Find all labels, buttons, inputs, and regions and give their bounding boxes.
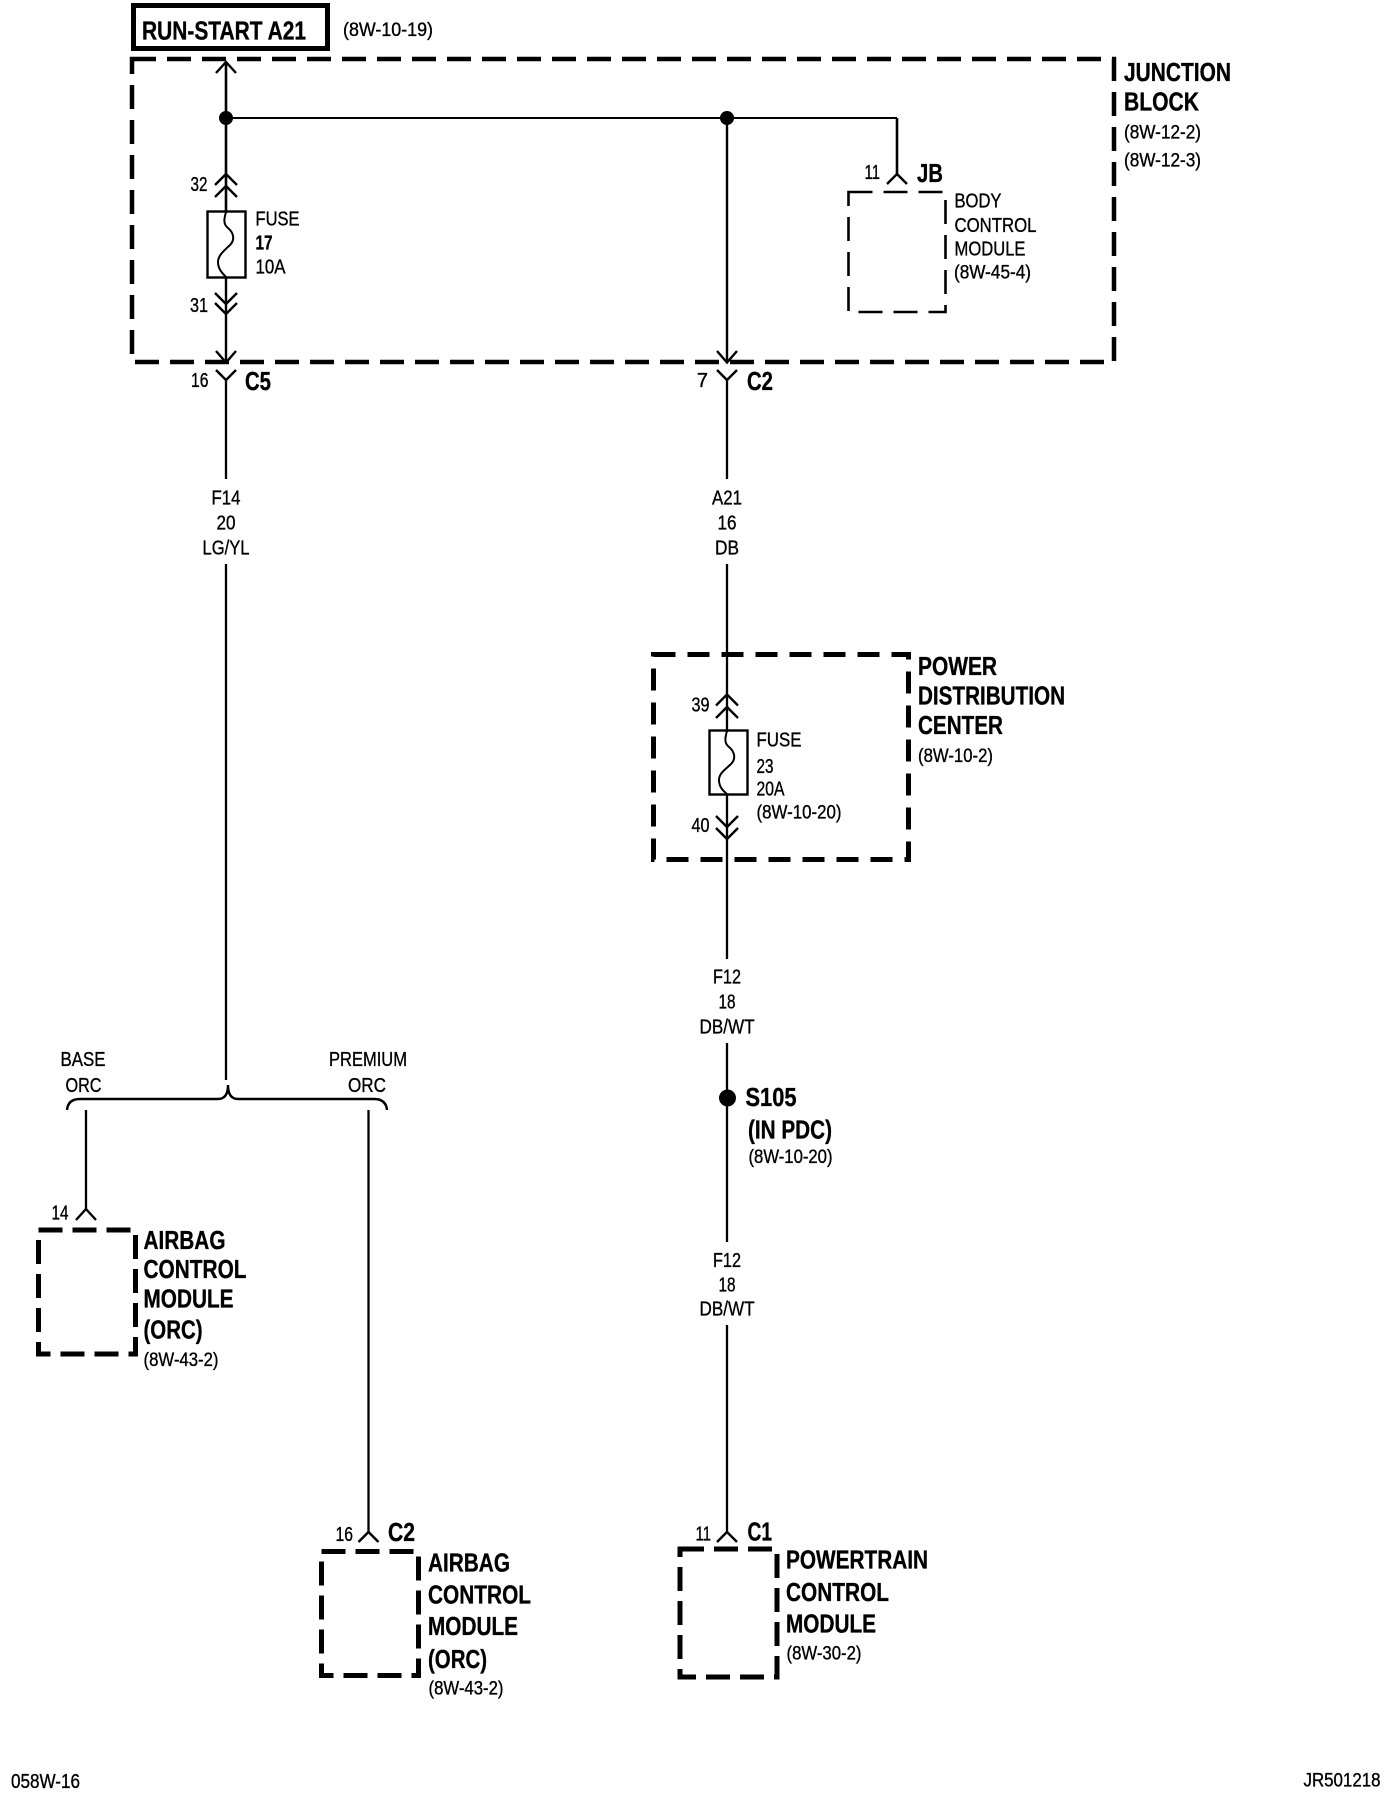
svg-text:JUNCTION: JUNCTION <box>1124 57 1231 87</box>
junction block label <box>1124 57 1231 172</box>
svg-text:F12: F12 <box>713 1250 741 1272</box>
powertrain control module dashed box <box>680 1549 777 1677</box>
svg-text:BODY: BODY <box>955 191 1002 213</box>
fuse 17 value labels <box>256 209 300 279</box>
wire label A21 16 DB <box>712 488 742 560</box>
ORC split brace <box>67 1085 387 1110</box>
connector C2 pin 16 (premium ORC) <box>336 1517 416 1547</box>
wire: fuse to junction block edge with arrow down <box>216 277 236 363</box>
svg-text:ORC: ORC <box>66 1075 102 1097</box>
wire label F12 18 DB/WT (lower) <box>700 1250 755 1321</box>
svg-text:32: 32 <box>191 174 208 196</box>
wire: S105 to label F12 <box>726 1104 728 1242</box>
svg-text:JR501218: JR501218 <box>1304 1771 1381 1792</box>
svg-text:20: 20 <box>217 513 236 535</box>
svg-text:058W-16: 058W-16 <box>11 1771 80 1793</box>
fuse 23 (PDC) <box>710 731 748 795</box>
wire: base ORC branch <box>85 1110 87 1209</box>
svg-text:(8W-30-2): (8W-30-2) <box>787 1644 862 1665</box>
svg-text:FUSE: FUSE <box>757 730 802 752</box>
body control module label <box>954 191 1037 284</box>
svg-text:AIRBAG: AIRBAG <box>428 1548 510 1578</box>
svg-text:C1: C1 <box>748 1517 773 1547</box>
svg-text:MODULE: MODULE <box>786 1609 876 1639</box>
wire: junction block drop to C2 with arrow down <box>717 118 737 363</box>
wire: C5 to label F14 <box>225 380 227 479</box>
body control module dashed box <box>849 192 946 312</box>
svg-text:(8W-45-4): (8W-45-4) <box>954 263 1031 284</box>
svg-text:11: 11 <box>865 162 881 184</box>
wire: F14 label to ORC split brace <box>225 564 227 1080</box>
svg-text:ORC: ORC <box>348 1075 386 1097</box>
svg-text:DB/WT: DB/WT <box>700 1017 755 1039</box>
svg-text:C5: C5 <box>245 366 271 396</box>
label BASE ORC <box>61 1049 106 1097</box>
label PREMIUM ORC <box>329 1049 407 1097</box>
svg-text:CONTROL: CONTROL <box>955 215 1037 237</box>
svg-text:16: 16 <box>718 513 737 535</box>
connector C5 pin 16 <box>191 366 271 396</box>
svg-text:FUSE: FUSE <box>256 209 300 231</box>
svg-text:(8W-43-2): (8W-43-2) <box>144 1350 219 1371</box>
wire label F12 18 DB/WT <box>700 967 755 1039</box>
svg-text:(8W-10-19): (8W-10-19) <box>343 20 433 41</box>
svg-text:A21: A21 <box>712 488 742 510</box>
svg-text:39: 39 <box>692 695 710 717</box>
wire: premium ORC branch <box>367 1110 369 1532</box>
svg-text:(8W-10-2): (8W-10-2) <box>918 746 993 767</box>
svg-text:DISTRIBUTION: DISTRIBUTION <box>918 681 1065 711</box>
svg-text:16: 16 <box>191 370 209 392</box>
fuse 17 (junction block) <box>208 212 246 278</box>
svg-text:C2: C2 <box>747 366 773 396</box>
wire: C2 to label A21 <box>726 380 728 479</box>
airbag control module (base) label <box>144 1225 247 1371</box>
power distribution center label <box>918 651 1065 767</box>
wire label F14 20 LG/YL <box>203 488 250 560</box>
connector pin 14 (base ORC) <box>52 1203 97 1225</box>
wire: label to connector C1 <box>726 1325 728 1532</box>
svg-text:40: 40 <box>692 815 710 837</box>
pin 31 chevrons <box>190 293 237 317</box>
node: bus junction dot at run-start feed <box>219 111 233 125</box>
wire: A21 label to fuse 23 <box>726 564 728 730</box>
svg-text:BLOCK: BLOCK <box>1124 87 1199 117</box>
connector C1 pin 11 <box>696 1517 773 1547</box>
svg-text:CONTROL: CONTROL <box>144 1254 247 1284</box>
wire: horizontal bus inside junction block <box>226 117 897 119</box>
connector C2 pin 7 <box>697 366 773 396</box>
svg-text:POWERTRAIN: POWERTRAIN <box>786 1545 928 1575</box>
svg-text:MODULE: MODULE <box>144 1284 234 1314</box>
svg-text:31: 31 <box>190 295 208 317</box>
svg-text:PREMIUM: PREMIUM <box>329 1049 407 1071</box>
svg-text:23: 23 <box>757 756 774 778</box>
wire from RUN-START A21 into junction block (arrow up) <box>216 62 236 211</box>
svg-text:F14: F14 <box>212 488 241 510</box>
splice S105 label <box>746 1082 833 1168</box>
svg-text:(8W-12-3): (8W-12-3) <box>1124 151 1201 172</box>
svg-text:17: 17 <box>256 233 273 255</box>
svg-text:AIRBAG: AIRBAG <box>144 1225 226 1255</box>
svg-text:DB: DB <box>715 538 739 560</box>
svg-text:JB: JB <box>917 158 943 188</box>
junction block dashed boundary <box>132 59 1114 362</box>
node RUN-START A21 source box <box>134 6 328 49</box>
svg-text:14: 14 <box>52 1203 69 1225</box>
svg-text:S105: S105 <box>746 1082 797 1112</box>
svg-text:18: 18 <box>719 992 736 1014</box>
svg-text:BASE: BASE <box>61 1049 106 1071</box>
wire: label to splice S105 <box>726 1043 728 1092</box>
svg-text:F12: F12 <box>713 967 741 989</box>
svg-text:(8W-43-2): (8W-43-2) <box>429 1679 504 1700</box>
pin 32 chevrons <box>191 174 238 197</box>
svg-text:LG/YL: LG/YL <box>203 538 250 560</box>
pin 39 chevrons <box>692 695 739 719</box>
svg-text:(8W-10-20): (8W-10-20) <box>749 1147 833 1168</box>
fuse 23 value labels <box>757 730 842 824</box>
airbag control module (premium) label <box>428 1548 531 1700</box>
svg-text:(IN PDC): (IN PDC) <box>748 1115 832 1145</box>
svg-text:MODULE: MODULE <box>955 239 1026 261</box>
wire: fuse 23 to label F12 <box>726 794 728 959</box>
svg-text:RUN-START A21: RUN-START A21 <box>142 16 306 46</box>
svg-text:16: 16 <box>336 1524 354 1546</box>
svg-text:CONTROL: CONTROL <box>786 1577 889 1607</box>
wire: bus drop to JB connector <box>896 118 899 174</box>
pin 40 chevrons <box>692 815 739 839</box>
svg-text:DB/WT: DB/WT <box>700 1299 755 1321</box>
svg-text:10A: 10A <box>256 257 287 279</box>
svg-text:POWER: POWER <box>918 651 997 681</box>
svg-text:7: 7 <box>697 370 708 392</box>
svg-text:11: 11 <box>696 1524 712 1546</box>
airbag control module (premium) dashed box <box>322 1552 419 1676</box>
svg-text:C2: C2 <box>388 1517 415 1547</box>
svg-text:(8W-10-20): (8W-10-20) <box>757 803 842 824</box>
svg-text:18: 18 <box>719 1275 736 1297</box>
svg-text:MODULE: MODULE <box>428 1611 518 1641</box>
airbag control module (base) dashed box <box>39 1230 136 1354</box>
svg-text:(ORC): (ORC) <box>428 1644 487 1674</box>
svg-text:CENTER: CENTER <box>918 710 1003 740</box>
node: splice S105 <box>719 1090 736 1107</box>
svg-text:20A: 20A <box>757 779 786 801</box>
svg-text:(8W-12-2): (8W-12-2) <box>1124 123 1201 144</box>
power distribution center dashed boundary <box>654 655 909 860</box>
svg-text:(ORC): (ORC) <box>144 1315 203 1345</box>
svg-text:CONTROL: CONTROL <box>428 1580 531 1610</box>
powertrain control module label <box>786 1545 928 1665</box>
connector JB pin 11 <box>865 158 944 188</box>
node: bus junction dot to C2 drop <box>720 111 734 125</box>
